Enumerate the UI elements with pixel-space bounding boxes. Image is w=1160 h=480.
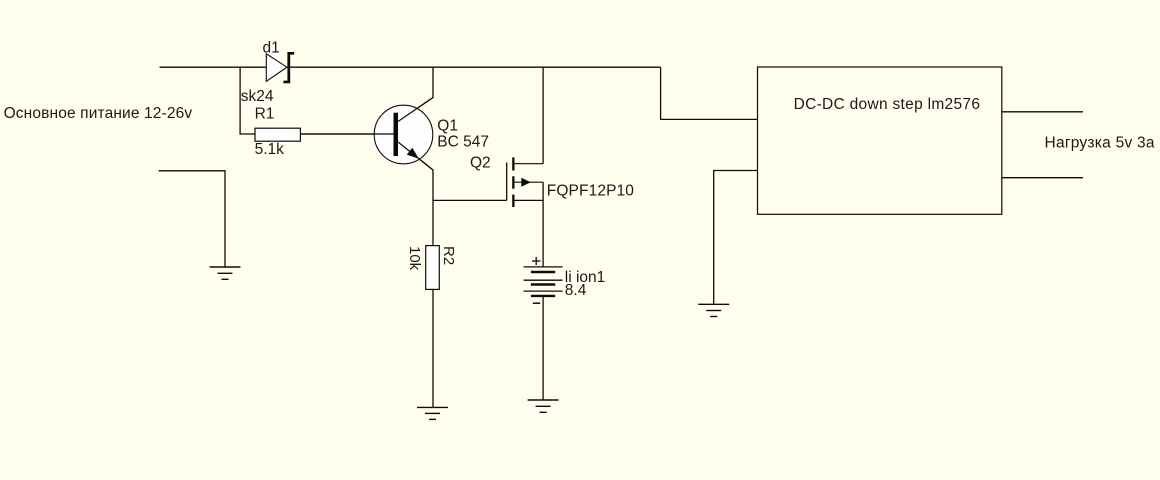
svg-text:d1: d1 bbox=[263, 40, 280, 57]
svg-text:5.1k: 5.1k bbox=[255, 141, 285, 158]
svg-text:FQPF12P10: FQPF12P10 bbox=[547, 182, 634, 199]
svg-text:R1: R1 bbox=[255, 106, 275, 123]
wire top rail bbox=[160, 66, 661, 68]
battery minus sign bbox=[533, 302, 540, 304]
wire emitter node to Q2 gate bbox=[433, 199, 507, 201]
wire R1 to Q1 base bbox=[300, 133, 393, 135]
wire DC-DC ground input bbox=[714, 171, 758, 305]
svg-text:Нагрузка 5v 3a: Нагрузка 5v 3a bbox=[1045, 135, 1155, 152]
DC-DC converter box U1 bbox=[758, 67, 1002, 214]
wire left ground branch bbox=[159, 171, 225, 267]
wire branch down to R1 bbox=[240, 67, 255, 134]
mosfet Q2 bbox=[507, 157, 543, 207]
wire DC-DC output plus bbox=[1002, 111, 1083, 113]
wire top rail to DC-DC input bbox=[661, 67, 758, 119]
resistor R2 bbox=[426, 246, 440, 290]
ground (battery) bbox=[528, 400, 559, 412]
svg-text:DC-DC down step lm2576: DC-DC down step lm2576 bbox=[794, 96, 981, 113]
wire R2 to ground bbox=[432, 289, 434, 407]
transistor Q1 bbox=[300, 98, 433, 171]
svg-text:Основное питание 12-26v: Основное питание 12-26v bbox=[4, 105, 193, 122]
battery plus sign bbox=[532, 257, 541, 265]
ground (R2) bbox=[417, 407, 448, 419]
wire DC-DC output minus bbox=[1002, 177, 1083, 179]
ground (left input) bbox=[210, 267, 241, 279]
svg-text:BC 547: BC 547 bbox=[437, 133, 489, 150]
svg-text:10k: 10k bbox=[406, 246, 423, 271]
resistor R1 bbox=[255, 128, 300, 141]
ground (DC-DC) bbox=[698, 304, 729, 316]
svg-text:Q2: Q2 bbox=[470, 155, 491, 172]
svg-text:8.4: 8.4 bbox=[565, 282, 587, 299]
wire battery to ground bbox=[542, 296, 544, 400]
diode d1 bbox=[266, 52, 294, 83]
svg-text:Q1: Q1 bbox=[437, 118, 458, 135]
wire Q1 emitter bbox=[398, 142, 433, 200]
wire Q2 source to battery bbox=[542, 182, 544, 267]
wire emitter node to R2 bbox=[432, 200, 434, 245]
svg-text:sk24: sk24 bbox=[241, 88, 274, 105]
wire Q1 collector bbox=[398, 67, 433, 121]
svg-text:R2: R2 bbox=[440, 246, 457, 265]
wire top rail to Q2 drain bbox=[542, 67, 544, 164]
battery li ion1 bbox=[524, 267, 563, 296]
